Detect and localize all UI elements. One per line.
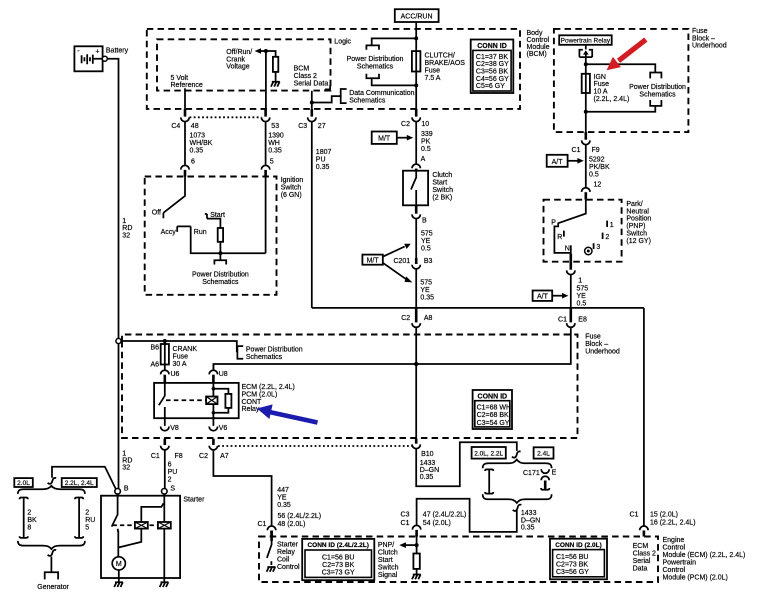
svg-text:7.5 A: 7.5 A [425,75,441,82]
resistor ignition [218,228,223,242]
svg-text:8: 8 [27,524,31,531]
svg-text:A7: A7 [220,453,229,460]
node run junction [218,251,222,255]
connector U8 [209,364,228,383]
svg-text:CONT: CONT [242,399,263,406]
node relay junction [584,62,588,66]
brace top (generator group) [18,486,85,494]
svg-text:C3=56 BK: C3=56 BK [476,69,508,76]
svg-text:Neutral: Neutral [626,208,649,215]
svg-text:U8: U8 [219,371,228,378]
node coil top [212,387,216,391]
svg-text:2.0L, 2.2L: 2.0L, 2.2L [474,451,503,458]
svg-text:PU: PU [168,469,178,476]
svg-text:Battery: Battery [106,47,129,54]
wire 5292 PK/BK 0.5 [586,145,610,189]
ECM/PCM module box bottom [259,537,658,583]
connector C201 B3 [393,258,432,269]
svg-text:C1=56 BU: C1=56 BU [556,554,589,561]
node coil bottom [212,411,216,415]
5 volt reference [171,75,203,109]
svg-text:C5=6 GY: C5=6 GY [476,83,505,90]
svg-text:A6: A6 [150,361,159,368]
path marker (direct) [485,469,493,493]
svg-text:Control: Control [663,544,686,551]
svg-text:Ignition: Ignition [281,177,304,184]
connector C3 pin 27 [298,109,325,130]
svg-text:Schematics: Schematics [246,354,283,361]
connector C1 E8 [558,308,587,327]
svg-text:47 (2.4L/2.2L): 47 (2.4L/2.2L) [423,512,467,519]
fuse CLUTCH/BRAKE/AOS 7.5A [412,51,465,82]
wire S feed [163,494,165,522]
svg-text:Start: Start [378,557,393,564]
svg-text:D–GN: D–GN [521,517,540,524]
svg-text:2: 2 [85,510,89,517]
svg-text:CRANK: CRANK [173,346,198,353]
svg-text:Fuse: Fuse [585,334,601,341]
svg-text:CONN ID: CONN ID [478,393,508,400]
wire 575 YE 0.5 [416,219,433,258]
wire coil1 branch [141,503,163,522]
svg-text:C3: C3 [298,123,307,130]
svg-text:YE: YE [577,293,587,300]
svg-text:+: + [95,49,99,56]
fuse block underhood box top-right [554,29,689,132]
svg-text:C1: C1 [572,147,581,154]
ECM class 2 serial data label [633,543,656,573]
wire C3-27 stem [311,91,313,109]
svg-text:Body: Body [527,30,543,37]
svg-text:Logic: Logic [334,39,351,46]
svg-text:15 (2.0L): 15 (2.0L) [650,512,678,519]
svg-text:Crank: Crank [226,56,245,63]
ground starter motor [114,578,123,587]
svg-text:Underhood: Underhood [692,43,727,50]
svg-text:575: 575 [421,230,433,237]
svg-text:C201: C201 [393,258,410,265]
relay contact arm [159,383,165,418]
conn id table BCM [471,40,514,94]
svg-text:10 A: 10 A [594,89,608,96]
PNP switch box [544,200,622,262]
svg-text:CONN ID (2.4L/2.2L): CONN ID (2.4L/2.2L) [307,542,368,549]
brace top (C171 group) [483,460,552,469]
svg-text:Clutch: Clutch [432,172,452,179]
svg-text:Schematics: Schematics [202,279,239,286]
svg-text:2.2L, 2.4L: 2.2L, 2.4L [65,480,94,487]
svg-text:Starter: Starter [183,496,205,503]
svg-text:Generator: Generator [37,584,69,591]
wire 6 PU 2 [165,450,178,488]
starter terminal B [115,485,129,494]
connector PNP pin 12 [582,188,590,200]
svg-text:Start: Start [432,180,447,187]
svg-text:C171: C171 [523,470,540,477]
wire resistor to ground [416,569,418,574]
conn id table 2.4L/2.2L [302,539,374,580]
connector C1 48 [267,526,275,537]
starter relay coil control switch [267,531,300,571]
svg-text:(2.2L, 2.4L): (2.2L, 2.4L) [594,96,630,103]
svg-text:C1: C1 [401,520,410,527]
svg-text:Control: Control [527,37,550,44]
svg-text:Module (PCM) (2.0L): Module (PCM) (2.0L) [663,574,728,581]
starter terminal S [162,485,176,494]
break squiggle generator top [48,478,57,484]
svg-text:C3=54 GY: C3=54 GY [477,420,510,427]
M/T tag upper [372,132,414,144]
A/T tag lower [533,291,569,301]
connector C1 F9 [572,132,600,154]
svg-text:D–GN: D–GN [420,467,439,474]
svg-text:Accy: Accy [161,229,177,236]
svg-text:0.35: 0.35 [420,294,434,301]
svg-text:B: B [124,485,129,492]
starter box [101,496,180,578]
svg-text:Reference: Reference [171,82,203,89]
svg-text:1073: 1073 [190,133,206,140]
svg-text:Off/Run/: Off/Run/ [226,49,252,56]
svg-text:Block –: Block – [692,35,715,42]
power distribution schematics (fuse block) [586,64,686,112]
svg-text:C1: C1 [257,521,266,528]
wire 53 drop [265,51,267,109]
svg-text:Coil: Coil [277,556,290,563]
svg-text:(BCM): (BCM) [527,51,547,58]
relay suppression resistor [225,394,231,408]
svg-text:Starter: Starter [277,541,299,548]
battery [74,46,128,71]
svg-text:Fuse: Fuse [692,28,708,35]
svg-text:A: A [421,156,426,163]
node crank junction [163,339,167,343]
svg-text:Serial: Serial [633,558,651,565]
connector U6 [161,370,180,383]
svg-text:48: 48 [191,123,199,130]
engine option tag 2.0L [14,478,33,487]
connector ignition pin 6 [181,165,189,176]
fuse CRANK 30A [150,341,197,370]
svg-text:Engine: Engine [663,537,685,544]
svg-text:5292: 5292 [589,157,605,164]
svg-text:Switch: Switch [281,185,302,192]
svg-text:2: 2 [168,477,172,484]
conn id table 2.0L [550,539,607,580]
svg-text:A/T: A/T [552,159,564,166]
svg-text:32: 32 [122,233,130,240]
connector V6 [209,418,227,432]
svg-text:B3: B3 [424,258,433,265]
svg-text:1: 1 [578,277,582,284]
ground starter relay [267,567,276,572]
break squiggle upper [512,451,521,457]
ground starter solenoid [160,578,169,587]
svg-text:C4=56 GY: C4=56 GY [476,76,509,83]
svg-text:F9: F9 [592,147,600,154]
svg-text:Module (ECM) (2.2L, 2.4L): Module (ECM) (2.2L, 2.4L) [663,552,746,559]
dotted link C4-53 [190,116,262,118]
power distribution bracket (ignition) [192,253,249,286]
svg-text:2.4L: 2.4L [537,451,550,458]
svg-text:YE: YE [421,238,431,245]
brace bottom (C171 group) [483,494,552,503]
svg-text:P: P [551,220,556,227]
svg-text:BCM: BCM [294,66,310,73]
svg-text:53: 53 [271,123,279,130]
svg-text:C3: C3 [401,512,410,519]
generator option wire [52,467,116,489]
svg-text:C2: C2 [401,315,410,322]
generator stub [37,557,69,591]
svg-text:1433: 1433 [420,460,436,467]
svg-text:B6: B6 [150,344,159,351]
connector 53 [261,109,279,130]
svg-text:Signal: Signal [378,572,398,579]
solenoid coil 2 [158,522,171,529]
svg-text:WH: WH [268,140,280,147]
wire 1807 PU 0.35 [312,122,332,308]
svg-text:0.35: 0.35 [316,164,330,171]
svg-text:Serial Data: Serial Data [294,81,329,88]
svg-text:A/T: A/T [537,294,549,301]
svg-text:2: 2 [27,510,31,517]
ECM/PCM CONT relay box [154,383,239,418]
svg-text:(2 BK): (2 BK) [432,194,452,201]
ignition switch contacts [152,177,266,254]
BCM class 2 serial data label [294,66,329,88]
node 53 junction [264,49,268,53]
dotted link A7-B10 [218,445,412,447]
svg-text:C2=68 BK: C2=68 BK [477,412,509,419]
svg-text:Switch: Switch [626,231,647,238]
svg-text:N: N [565,246,570,253]
powertrain relay contact [579,45,592,65]
wire E8 to U8 [213,327,570,371]
svg-text:BRAKE/AOS: BRAKE/AOS [425,60,466,67]
svg-text:1807: 1807 [316,149,332,156]
svg-text:5: 5 [85,524,89,531]
svg-text:0.35: 0.35 [190,148,204,155]
svg-text:M: M [116,561,122,568]
svg-text:0.35: 0.35 [277,502,291,509]
svg-text:YE: YE [420,287,430,294]
connector V8 [161,418,179,432]
svg-text:(6 GN): (6 GN) [281,192,302,199]
node fuse-block tap [116,338,121,343]
svg-text:339: 339 [421,131,433,138]
svg-text:Schematics: Schematics [639,92,676,99]
wire to ground [275,72,277,82]
wire label 1 RD 32 lower [122,450,132,471]
wire 575 YE 0.5 (PNP) [571,275,588,308]
svg-text:CLUTCH/: CLUTCH/ [425,53,455,60]
BCM module box [147,29,520,109]
svg-text:Run: Run [194,229,207,236]
power distribution bracket (fuse block) [237,346,302,361]
relay coil X-box [206,397,217,405]
svg-text:Block –: Block – [585,341,608,348]
relay coil circuit [213,383,228,418]
svg-text:3: 3 [596,244,600,251]
PNP switch label [626,201,651,245]
starter mech link [113,524,171,526]
node junction top [414,36,418,40]
wire to pull resistor [416,537,418,554]
ECM/PCM module label [663,537,746,582]
connector PNP out [567,262,575,275]
svg-text:M/T: M/T [378,136,391,143]
svg-text:RD: RD [122,225,132,232]
wire resistor to run bus [219,242,221,253]
relay label [242,384,295,413]
connector clutch switch pin A [412,164,420,170]
svg-text:M/T: M/T [367,257,380,264]
node bus junction [414,362,418,366]
svg-text:Data: Data [633,566,648,573]
connector B10 [412,439,439,482]
svg-text:Data Communication: Data Communication [349,90,414,97]
svg-text:575: 575 [577,286,589,293]
svg-text:Class 2: Class 2 [294,73,317,80]
svg-text:F8: F8 [175,453,183,460]
svg-text:V8: V8 [170,425,179,432]
engine option tag 20L/2.2L [472,447,506,459]
svg-text:CONN ID: CONN ID [477,43,507,50]
fuse block underhood box middle [122,335,578,439]
wire right drop to ECM [643,308,645,527]
ignition bus wire [312,307,644,309]
starter motor feed [117,531,119,557]
svg-text:Schematics: Schematics [357,64,394,71]
wire label 1 RD 32 upper [122,218,132,240]
connector C2 A7 [199,439,229,460]
path marker right (2 RU 5) [75,498,95,538]
crank fuse feed wire [121,341,237,352]
svg-text:A8: A8 [424,315,433,322]
svg-text:Switch: Switch [432,187,453,194]
connector C4 pin 48 [171,109,198,130]
svg-text:C2: C2 [199,453,208,460]
conn id table fuse block [473,390,512,429]
svg-text:2: 2 [605,234,609,241]
wire battery feed [107,59,118,489]
logic box [157,39,331,90]
svg-text:10: 10 [421,121,429,128]
node fuse junction [584,110,588,114]
off/run/crank voltage node [226,48,275,70]
PNP internal contacts [551,200,614,262]
svg-text:(PNP): (PNP) [626,223,645,230]
svg-text:ECM (2.2L, 2.4L): ECM (2.2L, 2.4L) [242,384,295,391]
wire ACC/RUN feed [415,22,417,109]
svg-text:CONN ID (2.0L): CONN ID (2.0L) [555,542,602,549]
wire coil2 to ground [163,529,165,578]
svg-text:0.5: 0.5 [421,245,431,252]
connector C3/C1 47 54 [401,512,467,537]
connector C2 pin 10 [401,109,429,128]
svg-text:Relay: Relay [242,406,260,413]
svg-text:Off: Off [152,210,161,217]
svg-text:56 (2.4L/2.2L): 56 (2.4L/2.2L) [278,513,322,520]
svg-text:PNP/: PNP/ [378,542,394,549]
svg-text:1390: 1390 [268,133,284,140]
svg-text:Switch: Switch [378,565,399,572]
red arrow annotation [607,40,646,71]
svg-text:PU: PU [316,157,326,164]
svg-text:0.35: 0.35 [420,474,434,481]
wire 1433 D-GN 0.35 return [417,499,541,532]
svg-text:Clutch: Clutch [378,550,398,557]
PNP signal arrow [399,542,416,548]
svg-text:Fuse: Fuse [173,353,189,360]
svg-text:C1: C1 [558,317,567,324]
svg-text:Schematics: Schematics [349,98,386,105]
svg-text:12: 12 [594,182,602,189]
svg-text:Power Distribution: Power Distribution [192,271,249,278]
M/T tag lower with two arrows [362,244,412,283]
svg-text:C2=73 BK: C2=73 BK [322,562,354,569]
svg-text:2.0L: 2.0L [17,480,30,487]
svg-text:C4: C4 [171,123,180,130]
svg-text:R: R [557,234,562,241]
blue arrow annotation [257,404,318,422]
path marker left (2 BK 8) [20,498,38,538]
svg-text:WH/BK: WH/BK [190,140,213,147]
svg-text:ACC/RUN: ACC/RUN [401,14,433,21]
svg-text:5: 5 [270,158,274,165]
break squiggle generator bottom [48,550,57,556]
ignition switch label [281,177,304,199]
svg-text:Powertrain: Powertrain [663,559,697,566]
svg-text:Relay: Relay [277,549,295,556]
svg-text:0.5: 0.5 [577,301,587,308]
svg-text:C3=73 GY: C3=73 GY [322,570,355,577]
resistor BCM pull-up [273,57,278,72]
svg-text:Module: Module [527,44,550,51]
svg-text:(12 GY): (12 GY) [626,238,651,245]
connector C1 15/16 [630,512,696,537]
svg-text:V6: V6 [219,425,228,432]
svg-text:Power Distribution: Power Distribution [629,84,686,91]
svg-text:6: 6 [191,158,195,165]
svg-text:0.5: 0.5 [589,172,599,179]
svg-text:16 (2.2L, 2.4L): 16 (2.2L, 2.4L) [650,519,696,526]
A/T tag upper [547,155,584,167]
break squiggle lower [513,505,522,511]
fuse block underhood label middle [585,334,620,356]
power distribution schematics (BCM logic) [347,38,417,85]
ground ECM [412,575,421,580]
svg-text:1: 1 [122,450,126,457]
engine option tag 2.2L/2.4L [62,478,97,487]
svg-text:RD: RD [122,458,132,465]
svg-text:S: S [170,485,175,492]
svg-text:C1=37 BK: C1=37 BK [476,54,508,61]
connector C1 F8 [151,439,183,460]
fuse IGN 10A [582,64,630,132]
engine option tag 2.4L [534,447,554,458]
svg-text:C2: C2 [401,121,410,128]
svg-text:C1: C1 [151,453,160,460]
svg-text:32: 32 [122,465,130,472]
brace bottom (generator group) [18,541,85,549]
svg-text:PCM (2.0L): PCM (2.0L) [242,391,278,398]
node junction bottom [414,83,418,87]
powertrain relay tag [559,35,612,45]
resistor ECM pull [413,554,419,569]
fuse block underhood label top-right [692,28,727,49]
